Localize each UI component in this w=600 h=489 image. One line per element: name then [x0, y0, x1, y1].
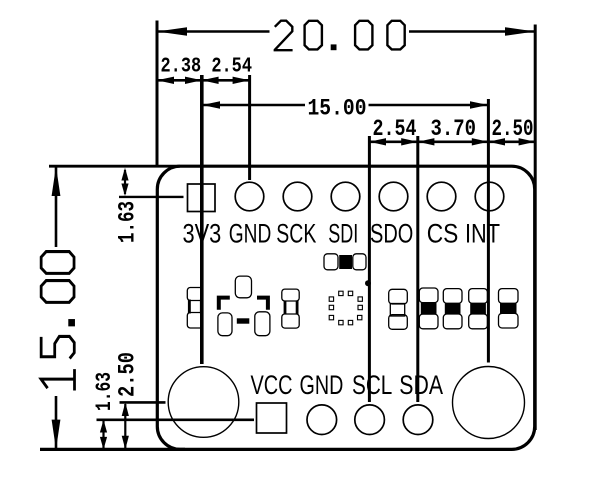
arrow 20.00 right [505, 27, 535, 36]
wire dim-line 2.54/3.70/2.50 [369, 141, 535, 144]
arrowhead INT-node left side [472, 138, 489, 145]
svg-text:SCL: SCL [352, 370, 392, 400]
transistor U1 footprint (brackets + pads) [218, 276, 270, 336]
arrowhead 2.50b down [122, 436, 129, 450]
svg-text:SDI: SDI [328, 219, 358, 249]
pad VCC square [257, 403, 287, 433]
svg-text:2.50: 2.50 [115, 352, 141, 397]
pad SDO [379, 182, 408, 211]
via dot [365, 280, 371, 286]
wire dim-line 1.63 top [124, 170, 126, 194]
arrowhead 2.54 right end [233, 77, 250, 84]
resistor R4 [443, 289, 462, 329]
wire dim-line 15.00h left segment [202, 104, 305, 107]
wire dim-line 15.00v lower segment [55, 396, 58, 449]
arrowhead 1.63b up [100, 420, 107, 433]
arrowhead at node 2.38/2.54 boundary left [185, 77, 202, 84]
extension line col INT/hole x=488.4 [487, 99, 490, 363]
arrowhead 1.63t up [121, 168, 128, 181]
mounting hole right [453, 367, 525, 439]
extension line col GND top x=249.6 [248, 75, 251, 180]
svg-text:2.54: 2.54 [373, 116, 417, 142]
arrowhead 15.00v bottom [52, 420, 61, 450]
wire extension hole-center 2.50 [120, 401, 166, 404]
svg-text:1.63: 1.63 [115, 201, 142, 243]
arrow 20.00 left [157, 27, 187, 36]
resistor R1 (horizontal, top) [324, 254, 366, 270]
arrowhead 2.50 right end [519, 138, 536, 145]
extension line col SCL x=369.4 [368, 136, 371, 402]
value text 15.00v digit 0 [41, 281, 74, 303]
wire dim-line 15.00v upper segment [55, 166, 58, 247]
svg-text:SDO: SDO [370, 219, 413, 249]
svg-text:1.63: 1.63 [91, 372, 117, 411]
pad CS [427, 182, 456, 211]
extension line right board edge [534, 25, 537, 431]
value text 20.00 digit 2 [275, 21, 293, 50]
pad INT [475, 182, 504, 211]
arrows 2.38/2.54 [157, 77, 174, 84]
resistor R5 [469, 289, 488, 329]
svg-text:2.38 2.54: 2.38 2.54 [161, 55, 253, 79]
wire dim-line 15.00h right segment [369, 104, 489, 107]
svg-text:GND: GND [229, 219, 271, 249]
wire extension top for 15.00v [49, 165, 180, 168]
value text 15.00v digit 0b [41, 252, 74, 274]
wire dim-line 2.38/2.54 [157, 79, 250, 82]
capacitor C2 [282, 289, 299, 328]
pad SCL [355, 405, 385, 435]
arrowhead at node 2.38/2.54 boundary right [202, 77, 219, 84]
extension line left board edge (above board) [156, 21, 159, 167]
value text 20.00 digit 0b [355, 21, 372, 50]
wire dim-line 1.63 bottom [102, 421, 104, 448]
wire dim-line 2.50 bottom [124, 404, 126, 448]
arrowhead 1.63t down [121, 184, 128, 197]
value text 20.00 digit 0c [387, 21, 404, 50]
arrowhead 15.00v top [52, 166, 61, 196]
pad GND bottom [307, 405, 337, 435]
wire dim-line 20.00 left segment [157, 30, 270, 33]
pad 3V3 square [188, 184, 216, 212]
arrowhead SDA-node right side [418, 138, 435, 145]
svg-text:INT: INT [465, 219, 500, 249]
arrowhead 2.50b up [122, 402, 129, 416]
pad GND top [235, 182, 264, 211]
arrowhead INT-node right side [488, 138, 505, 145]
arrowhead 15.00h left [202, 101, 220, 108]
wire dim-line 20.00 right segment [409, 30, 535, 33]
pad SDA [403, 405, 433, 435]
svg-text:2.50: 2.50 [492, 116, 534, 142]
mounting hole left [168, 367, 239, 438]
svg-text:CS: CS [427, 219, 459, 249]
wire extension pad-row bottom 1.63 [97, 418, 255, 421]
extension line col SDA x=417.8 [416, 136, 419, 402]
arrowhead 2.54 left end [369, 138, 386, 145]
IC U2 QFN pads [329, 291, 362, 325]
svg-text:15.00: 15.00 [308, 96, 367, 122]
capacitor C1 (left edge) [187, 288, 203, 329]
resistor R3 [419, 288, 438, 329]
value text 20.00 digit 0 [305, 21, 322, 50]
svg-text:3V3: 3V3 [183, 219, 222, 249]
svg-text:VCC: VCC [251, 370, 293, 400]
arrowhead 1.63b down [100, 437, 107, 450]
svg-text:SCK: SCK [276, 219, 316, 249]
resistor R2 (open body) [389, 289, 408, 329]
svg-text:3.70: 3.70 [431, 116, 477, 142]
pad SCK [283, 182, 312, 211]
pad SDI [331, 182, 360, 211]
board outline [157, 166, 534, 449]
value text 15.00v digit 1 [41, 369, 74, 390]
value text 15.00v period [68, 319, 75, 326]
arrowhead 15.00h right [470, 101, 488, 108]
resistor R6 [499, 289, 519, 328]
wire extension bottom for 15.00v [40, 448, 185, 451]
value text 15.00v digit 5 [41, 336, 74, 358]
extension line col 3V3/VCC x=201.6 [200, 75, 204, 364]
value text 20.00 period [331, 44, 337, 50]
wire extension pad-row top 1.63 [119, 196, 184, 198]
arrowhead SDA-node left side [401, 138, 418, 145]
svg-text:SDA: SDA [399, 370, 443, 400]
svg-text:GND: GND [300, 370, 344, 400]
